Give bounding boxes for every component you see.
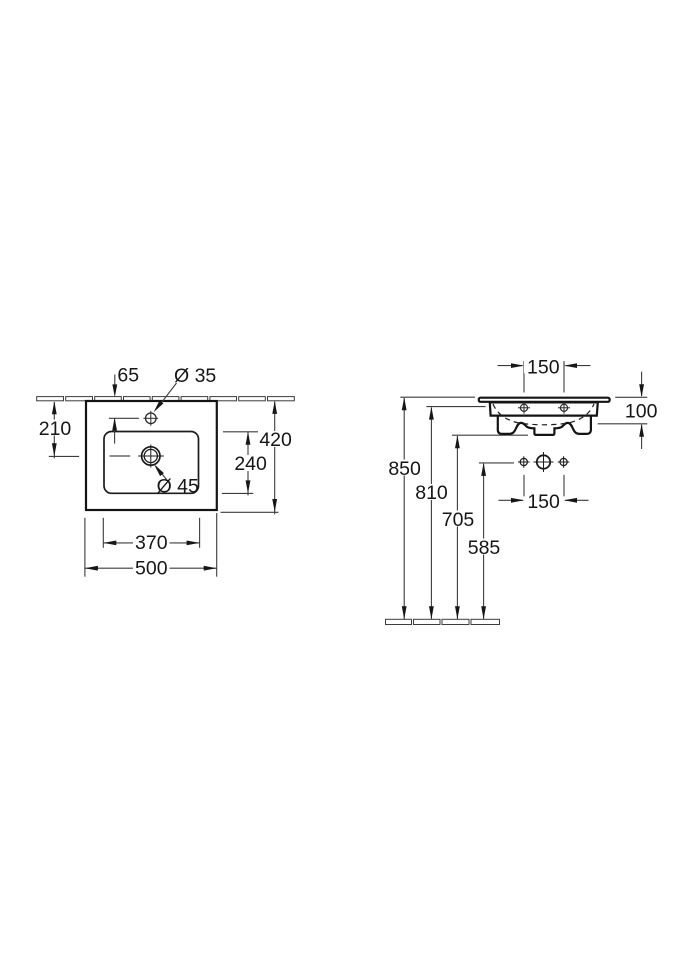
- svg-text:370: 370: [135, 532, 168, 554]
- svg-text:Ø 45: Ø 45: [157, 476, 199, 498]
- svg-text:150: 150: [527, 491, 560, 513]
- svg-text:705: 705: [442, 509, 475, 531]
- svg-text:65: 65: [117, 365, 139, 387]
- svg-text:100: 100: [625, 400, 658, 422]
- svg-text:850: 850: [388, 458, 421, 480]
- svg-text:420: 420: [259, 429, 292, 451]
- svg-text:210: 210: [39, 418, 72, 440]
- svg-text:500: 500: [135, 558, 168, 580]
- svg-text:240: 240: [234, 453, 267, 475]
- svg-text:150: 150: [527, 356, 560, 378]
- svg-text:Ø 35: Ø 35: [174, 365, 216, 387]
- svg-text:810: 810: [415, 482, 448, 504]
- svg-text:585: 585: [468, 537, 501, 559]
